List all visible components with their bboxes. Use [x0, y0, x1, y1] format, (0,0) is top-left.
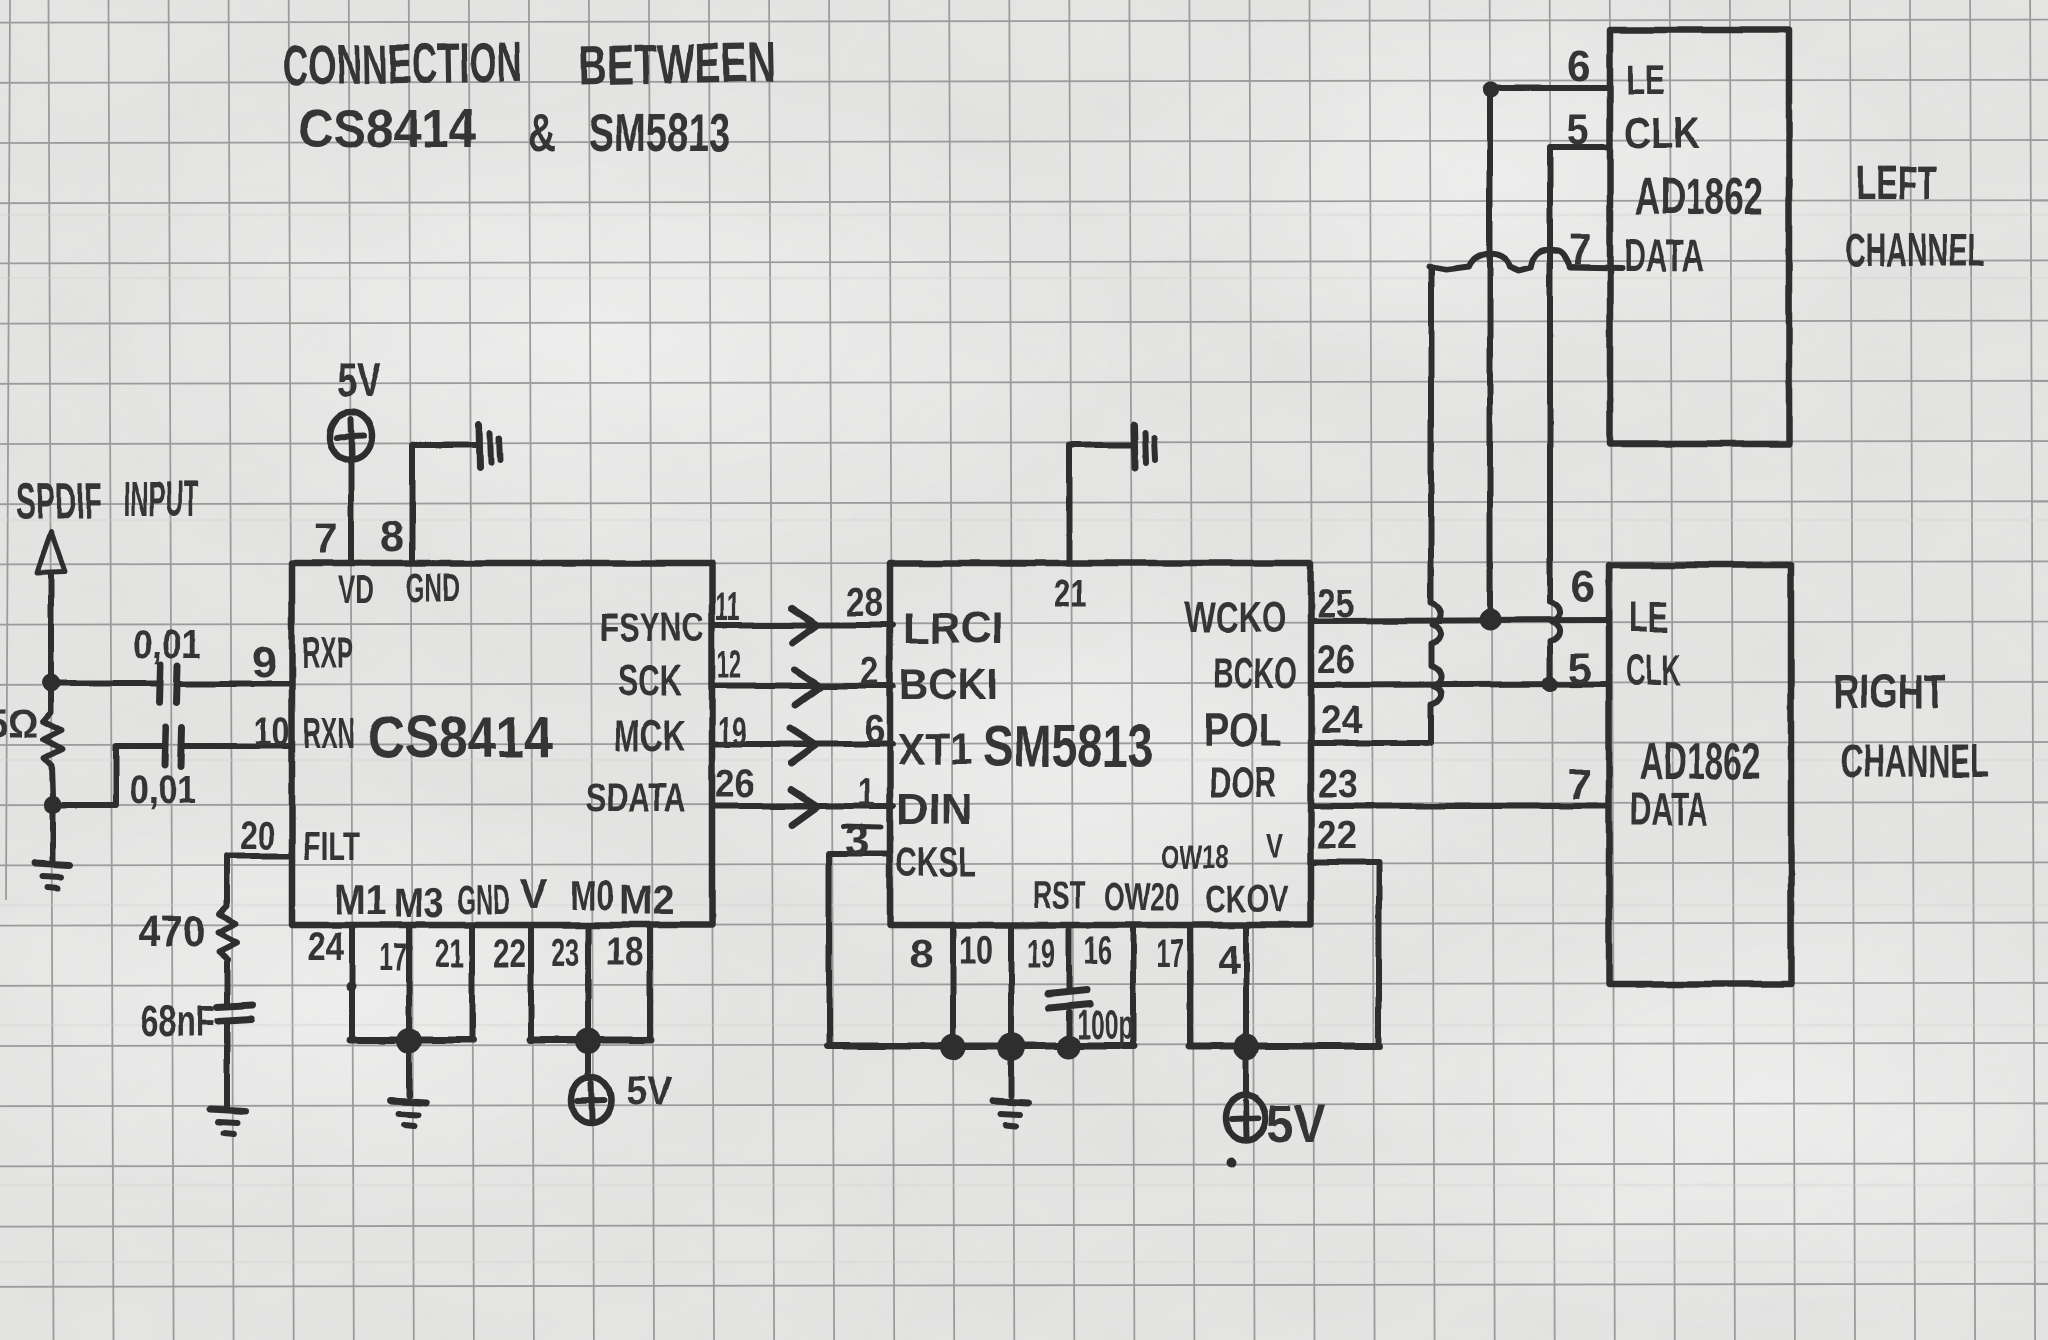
signal arrow MCK: [790, 728, 816, 763]
IC U2 SM5813 body: [890, 563, 1311, 925]
svg-text:6: 6: [864, 708, 885, 752]
wire GND pin 21 stub: [469, 925, 475, 1040]
svg-text:100p: 100p: [1077, 1001, 1133, 1048]
svg-text:CS8414: CS8414: [368, 705, 553, 770]
wire U2 pin 17 stub: [1187, 925, 1193, 1046]
svg-text:LE: LE: [1629, 593, 1668, 642]
ground G1: [35, 863, 70, 865]
ground G3: [391, 1101, 426, 1103]
wire 5V rail U1: [530, 1037, 651, 1044]
svg-text:7: 7: [1567, 760, 1591, 809]
svg-text:WCKO: WCKO: [1185, 593, 1287, 642]
svg-text:8: 8: [910, 932, 933, 976]
svg-text:VD: VD: [338, 568, 374, 612]
wire node B to C2 (L-shape): [53, 746, 162, 805]
svg-text:CONNECTION: CONNECTION: [282, 30, 523, 97]
node A junction dot: [42, 674, 60, 692]
svg-text:M1: M1: [334, 876, 387, 923]
svg-text:CS8414: CS8414: [298, 99, 476, 159]
capacitor C2 0,01 plates: [165, 727, 166, 765]
power symbol 5V (U1 VD): [330, 412, 372, 460]
node B junction dot: [44, 796, 62, 814]
wire FSYNC pin11 to LRCI pin28: [712, 622, 893, 628]
svg-text:BCKI: BCKI: [899, 660, 998, 709]
svg-text:FILT: FILT: [303, 825, 360, 869]
wire SCK pin12 to BCKI pin2: [712, 683, 893, 689]
junction dot LE tap: [1479, 609, 1501, 631]
svg-text:CLK: CLK: [1626, 646, 1681, 695]
svg-text:GND: GND: [406, 566, 460, 610]
wire U2 pin 10 stub: [1008, 925, 1014, 1046]
svg-text:AD1862: AD1862: [1635, 168, 1763, 226]
wire POL to left AD1862 DATA pin 7 (wavy with hops): [1429, 250, 1622, 270]
wire U2 pin 8 stub: [950, 925, 956, 1046]
wire FILT pin 20: [227, 856, 292, 906]
stray ink blob on stub: [346, 982, 356, 992]
wire CKSL pin 3 to ground rail: [829, 854, 890, 1046]
svg-text:18: 18: [606, 930, 643, 974]
junction dot pin19 rail: [1057, 1035, 1081, 1059]
resistor R1 75ohm zigzag: [43, 692, 62, 797]
svg-text:CKOV: CKOV: [1205, 879, 1288, 921]
svg-text:5V: 5V: [626, 1069, 672, 1113]
svg-text:20: 20: [240, 814, 275, 858]
svg-text:RXN: RXN: [303, 709, 355, 758]
wire R2 to C3: [224, 962, 230, 1004]
IC U1 CS8414 body: [292, 563, 712, 925]
IC U4 AD1862 right body: [1609, 565, 1791, 984]
wire U2 pin 19 stub: [1066, 925, 1072, 988]
wire C2 to CS8414 pin 10 RXN: [185, 743, 292, 749]
svg-text:V: V: [1266, 828, 1283, 866]
svg-text:RST: RST: [1033, 875, 1085, 917]
svg-text:XT1: XT1: [898, 725, 973, 774]
svg-text:CLK: CLK: [1624, 109, 1700, 158]
IC U3 AD1862 left body: [1610, 30, 1789, 444]
power symbol 5V (U1 modes): [571, 1077, 611, 1123]
wire VD pin 7 to 5V: [348, 458, 354, 563]
svg-text:5Ω: 5Ω: [0, 702, 38, 746]
wire rail to ground G4: [1008, 1047, 1014, 1096]
signal arrow SDATA: [791, 790, 817, 825]
svg-text:4: 4: [1218, 938, 1241, 982]
svg-text:M3: M3: [394, 879, 444, 926]
svg-text:23: 23: [551, 931, 579, 975]
svg-text:OW18: OW18: [1161, 839, 1229, 875]
svg-text:MCK: MCK: [614, 712, 685, 761]
wire C3 to ground: [224, 1024, 230, 1106]
wire U2 pin 21 to chassis: [1069, 445, 1131, 563]
wire M3 pin 17 stub: [406, 925, 412, 1040]
svg-text:LE: LE: [1626, 56, 1665, 103]
power symbol 5V (U2): [1226, 1095, 1266, 1141]
wire ground rail U2: [827, 1043, 1134, 1050]
signal arrow SCK: [794, 670, 820, 705]
ground symbol (U2 pin 21): [1134, 425, 1135, 468]
wire node A to C1: [51, 680, 157, 686]
svg-text:24: 24: [1320, 698, 1363, 742]
svg-text:M0: M0: [570, 872, 614, 919]
svg-text:CHANNEL: CHANNEL: [1845, 224, 1985, 276]
svg-text:6: 6: [1567, 42, 1591, 91]
ground G2: [210, 1109, 245, 1111]
title line 1 CONNECTION: [282, 30, 523, 97]
svg-text:DATA: DATA: [1630, 783, 1708, 835]
svg-text:17: 17: [1157, 932, 1184, 976]
wire LE bus to left AD1862 pin 6: [1490, 85, 1610, 91]
svg-text:6: 6: [1571, 562, 1595, 611]
svg-text:11: 11: [715, 585, 740, 629]
wire M2 pin 18 stub: [647, 925, 653, 1040]
junction blob CLK/BCKO: [1542, 676, 1558, 692]
schematic ink: [35, 30, 1791, 1168]
svg-text:LRCI: LRCI: [903, 604, 1003, 653]
svg-text:5V: 5V: [1267, 1094, 1325, 1154]
wire U2 pin 16 stub: [1130, 925, 1136, 1046]
SPDIF input arrow: [37, 532, 65, 572]
svg-text:&: &: [528, 103, 556, 163]
wire M0 pin 23 stub: [585, 925, 591, 1040]
wire U2 pin 22 to 5V rail: [1311, 862, 1379, 1046]
junction dot M0 rail: [575, 1028, 601, 1054]
junction dot pin4 rail: [1233, 1034, 1259, 1060]
svg-text:RIGHT: RIGHT: [1833, 666, 1946, 719]
svg-text:5: 5: [1567, 105, 1589, 154]
svg-text:INPUT: INPUT: [124, 471, 198, 527]
svg-text:25: 25: [1317, 582, 1354, 626]
svg-text:0,01: 0,01: [130, 768, 196, 812]
svg-text:9: 9: [252, 638, 277, 687]
svg-text:5V: 5V: [337, 354, 381, 407]
capacitor C3 68nF plates: [217, 1005, 253, 1007]
svg-text:19: 19: [718, 710, 747, 754]
svg-text:0,01: 0,01: [133, 623, 201, 667]
wire C1 to CS8414 pin 9 RXP: [181, 681, 292, 687]
svg-text:3: 3: [845, 816, 870, 865]
svg-text:DIN: DIN: [896, 785, 973, 834]
svg-text:DATA: DATA: [1624, 229, 1704, 281]
corner blob LE: [1483, 82, 1499, 98]
svg-text:OW20: OW20: [1104, 877, 1180, 919]
svg-text:26: 26: [1317, 638, 1355, 682]
svg-text:21: 21: [1054, 572, 1087, 616]
svg-text:V: V: [520, 870, 548, 917]
svg-text:2: 2: [860, 650, 879, 694]
svg-text:POL: POL: [1204, 704, 1282, 756]
vertical net LE bus: [1487, 88, 1493, 611]
vertical net POL to left DATA (with hops): [1431, 267, 1441, 743]
svg-text:8: 8: [380, 512, 404, 561]
wire WCKO pin25 to AD1862 LE (net WCK): [1311, 620, 1609, 621]
svg-text:SPDIF: SPDIF: [16, 473, 102, 531]
stray pen dot: [1226, 1158, 1236, 1168]
svg-text:LEFT: LEFT: [1856, 157, 1937, 210]
wire 5V rail U2: [1189, 1043, 1380, 1050]
wire POL pin24 horizontal: [1311, 740, 1428, 746]
capacitor C4 100p plates: [1048, 990, 1087, 994]
svg-text:7: 7: [1569, 225, 1592, 274]
svg-text:BCKO: BCKO: [1213, 649, 1297, 698]
title line 1 BETWEEN: [578, 30, 776, 97]
svg-text:SM5813: SM5813: [589, 103, 730, 163]
svg-text:7: 7: [314, 514, 337, 563]
junction dot pin8 rail: [940, 1034, 966, 1060]
wire CLK bus to left AD1862 pin 5: [1550, 144, 1610, 150]
svg-text:M2: M2: [619, 876, 675, 923]
svg-text:5: 5: [1568, 644, 1592, 693]
svg-text:26: 26: [715, 762, 754, 806]
svg-text:1: 1: [858, 771, 875, 815]
junction dot pin10 rail: [997, 1033, 1025, 1061]
wire rail to 5V supply U2: [1243, 1047, 1249, 1096]
svg-text:16: 16: [1084, 929, 1112, 973]
ground G4: [993, 1101, 1028, 1103]
wire ground rail U1: [350, 1037, 473, 1044]
svg-text:10: 10: [959, 929, 993, 973]
wire M1 pin 24 stub: [349, 925, 355, 1040]
pin 3 correction overbar: [843, 826, 881, 827]
svg-text:470: 470: [138, 907, 205, 956]
svg-text:22: 22: [493, 932, 526, 976]
svg-text:23: 23: [1318, 762, 1358, 806]
svg-text:22: 22: [1317, 813, 1357, 857]
signal arrow FSYNC: [791, 608, 817, 643]
svg-text:SM5813: SM5813: [983, 714, 1153, 779]
svg-text:DOR: DOR: [1209, 758, 1276, 807]
wire V pin 22 stub: [528, 925, 534, 1040]
wire rail to 5V supply: [585, 1041, 591, 1078]
svg-text:21: 21: [435, 932, 464, 976]
wire GND pin 8 to chassis: [412, 445, 476, 563]
svg-text:RXP: RXP: [302, 629, 353, 678]
svg-text:24: 24: [308, 925, 345, 969]
wire DOR pin23 to AD1862R DATA: [1311, 803, 1609, 809]
svg-text:17: 17: [379, 936, 407, 980]
junction dot M3 rail: [396, 1028, 422, 1054]
wire BCKO pin26 to AD1862 CLK (net BCK): [1311, 684, 1609, 685]
svg-text:12: 12: [717, 643, 741, 687]
svg-text:68nF: 68nF: [140, 997, 215, 1046]
wire U2 pin 4 stub: [1243, 925, 1249, 1046]
wire C4 to ground rail: [1066, 1012, 1072, 1046]
ground symbol (U1 pin 8): [479, 425, 480, 468]
wire MCK pin19 to XT1 pin6: [712, 741, 893, 747]
svg-text:GND: GND: [457, 876, 510, 923]
svg-text:SCK: SCK: [618, 656, 682, 705]
svg-text:CKSL: CKSL: [896, 838, 976, 885]
resistor R2 470 zigzag: [218, 906, 237, 962]
svg-text:CHANNEL: CHANNEL: [1841, 735, 1989, 787]
svg-text:28: 28: [846, 581, 883, 625]
wire node B to ground: [50, 805, 56, 860]
wire SDATA pin26 to DIN pin1: [712, 803, 893, 809]
wire rail to ground G3: [406, 1041, 412, 1096]
svg-text:19: 19: [1027, 932, 1055, 976]
svg-text:BETWEEN: BETWEEN: [578, 30, 776, 97]
capacitor C1 0,01 plates: [160, 665, 161, 702]
svg-text:FSYNC: FSYNC: [600, 606, 704, 650]
svg-text:10: 10: [254, 710, 290, 754]
svg-text:SDATA: SDATA: [586, 776, 686, 820]
vertical net CLK bus (with hop): [1550, 147, 1560, 684]
